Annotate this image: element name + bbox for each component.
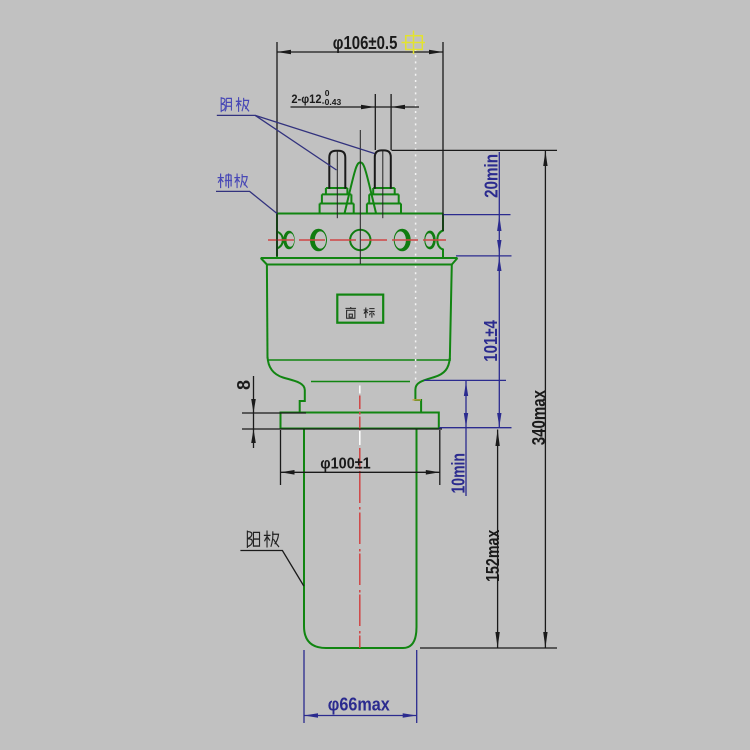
svg-text:φ100±1: φ100±1 (320, 455, 370, 472)
svg-text:10min: 10min (448, 453, 468, 494)
svg-text:101±4: 101±4 (481, 320, 501, 362)
svg-text:152max: 152max (483, 530, 503, 582)
svg-text:20min: 20min (482, 154, 502, 198)
svg-text:φ106±0.5: φ106±0.5 (333, 33, 398, 53)
svg-text:8: 8 (234, 380, 254, 390)
svg-text:-0.43: -0.43 (322, 97, 342, 107)
svg-text:φ66max: φ66max (328, 695, 390, 715)
svg-text:2-φ12: 2-φ12 (291, 92, 321, 106)
svg-text:340max: 340max (529, 390, 549, 445)
